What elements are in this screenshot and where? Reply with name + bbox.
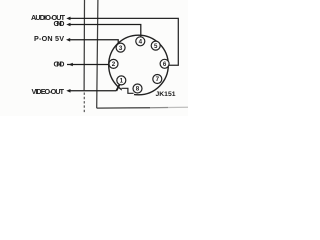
wire GND top to pin 4 (70, 25, 141, 37)
svg-text:7: 7 (156, 76, 160, 83)
connector JK151 outer circle (109, 35, 169, 95)
svg-text:GND: GND (54, 19, 65, 28)
svg-text:3: 3 (119, 45, 123, 52)
arrowhead P-ON 5V (left) (66, 38, 70, 42)
arrowhead AUDIO-OUT (left) (66, 17, 70, 21)
pin 4 circle (136, 37, 145, 46)
pin 6 circle (160, 59, 169, 68)
pin 1 circle (117, 76, 126, 85)
wire P-ON 5V to pin 3 (70, 40, 119, 44)
wire GND mid to pin 2 (67, 64, 109, 66)
svg-text:5: 5 (154, 43, 158, 50)
pin 8 circle (133, 84, 142, 93)
keyway notch white mask (122, 86, 134, 96)
wire vertical pass-through A dashed lower part (83, 93, 85, 114)
svg-text:P-ON 5V: P-ON 5V (34, 34, 64, 43)
svg-text:4: 4 (139, 39, 143, 46)
keyway notch outline (122, 88, 134, 93)
svg-text:JK151: JK151 (156, 91, 176, 98)
arrowhead VIDEO-OUT (left) (66, 89, 70, 93)
wire bottom horizontal fading tail (150, 107, 168, 109)
arrowhead GND top (left) (66, 23, 70, 27)
pin 3 circle (116, 43, 125, 52)
svg-text:GND: GND (54, 60, 65, 69)
svg-text:6: 6 (163, 61, 167, 68)
wire vertical pass-through A (x=84) (83, 0, 85, 90)
wire AUDIO-OUT to pin 6 (70, 18, 179, 65)
wire VIDEO-OUT to pin 1 (70, 90, 117, 92)
svg-text:8: 8 (136, 86, 140, 93)
pin 7 circle (153, 75, 162, 84)
arrowhead GND mid (left, on wire) (69, 63, 73, 67)
pin 5 circle (151, 41, 160, 50)
wire vertical pass-through B (x=96.4) with bottom corner (97, 0, 150, 108)
wire pin 1 diagonal stub (116, 84, 119, 91)
pin 2 circle (109, 59, 118, 68)
svg-text:1: 1 (120, 78, 124, 85)
svg-text:2: 2 (112, 61, 116, 68)
svg-text:VIDEO-OUT: VIDEO-OUT (32, 87, 65, 96)
